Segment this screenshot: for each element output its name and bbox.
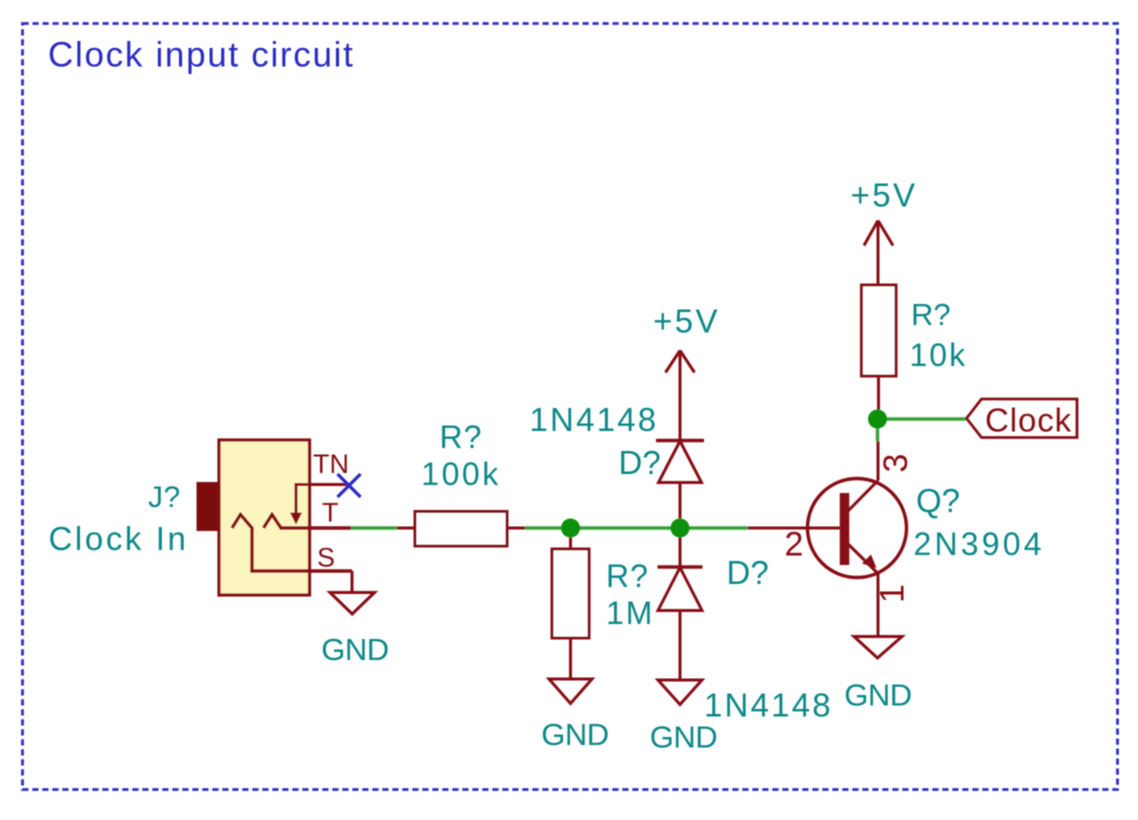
global label Clock outline <box>967 399 1078 438</box>
transistor Q1 collector diagonal <box>846 481 878 514</box>
power symbol +5V (middle) arrow <box>666 351 695 441</box>
svg-text:Q?: Q? <box>916 482 960 519</box>
transistor Q1 base bar <box>840 493 850 565</box>
resistor R3 10k bottom lead <box>877 376 880 419</box>
transistor Q1 emitter diagonal <box>846 542 878 574</box>
svg-text:1N4148: 1N4148 <box>704 687 833 724</box>
diode D2 cathode lead from junction <box>679 528 682 567</box>
transistor Q1 emitter arrow <box>862 555 877 569</box>
J1 switch arrow head <box>290 513 302 525</box>
svg-text:Clock input circuit: Clock input circuit <box>48 36 355 75</box>
svg-text:D?: D? <box>727 554 769 591</box>
junction dot at diode node <box>671 519 690 538</box>
svg-text:D?: D? <box>619 444 661 481</box>
resistor R2 1M body <box>552 549 589 638</box>
svg-text:T: T <box>322 498 339 528</box>
connector J1 sleeve bushing <box>197 482 220 531</box>
svg-text:+5V: +5V <box>653 303 720 340</box>
wire R 100k to transistor base <box>525 526 748 529</box>
svg-text:1: 1 <box>874 584 912 603</box>
svg-text:3: 3 <box>877 454 915 473</box>
ground symbol below R2 <box>549 679 592 704</box>
transistor Q1 emitter lead <box>877 574 880 638</box>
svg-text:J?: J? <box>148 481 181 514</box>
diode D2 anode lead <box>679 611 682 681</box>
junction dot at collector node <box>868 410 887 429</box>
svg-text:R?: R? <box>440 419 483 455</box>
ground symbol below jack <box>330 571 375 614</box>
svg-text:TN: TN <box>313 449 349 479</box>
svg-text:GND: GND <box>844 678 911 713</box>
svg-text:GND: GND <box>321 632 388 667</box>
J1 sleeve contact + pin S wire to corner <box>232 515 352 572</box>
svg-text:2N3904: 2N3904 <box>914 526 1045 562</box>
transistor Q1 circle <box>808 479 907 578</box>
power symbol +5V (top) arrow <box>864 221 893 286</box>
diode D1 triangle <box>659 441 702 483</box>
svg-text:100k: 100k <box>421 456 500 492</box>
svg-text:1N4148: 1N4148 <box>530 401 659 438</box>
J1 switch pin TN line <box>296 485 347 517</box>
transistor Q1 base pin <box>748 527 840 530</box>
resistor R2 1M top lead <box>569 528 572 549</box>
svg-text:GND: GND <box>650 720 717 755</box>
junction dot at R2 tap <box>561 519 580 538</box>
svg-text:R?: R? <box>606 558 649 594</box>
resistor R1 100k leads <box>397 527 525 530</box>
svg-text:Clock: Clock <box>985 402 1072 439</box>
svg-text:1M: 1M <box>606 595 654 631</box>
resistor R3 10k body <box>862 285 897 376</box>
diode D2 triangle <box>658 568 702 611</box>
resistor R1 100k body <box>415 512 507 547</box>
diode D1 anode lead <box>679 483 682 522</box>
wire jack T to R 100k <box>351 526 397 529</box>
diode D1 cathode bar <box>656 439 704 443</box>
wire collector node down to Q1 collector pin <box>876 419 879 442</box>
svg-text:S: S <box>317 543 335 573</box>
svg-text:+5V: +5V <box>851 177 918 214</box>
diode D2 cathode bar <box>658 565 703 569</box>
connector J1 audio jack body <box>219 440 310 595</box>
wire collector node to Clock label <box>878 417 967 420</box>
ground symbol below D2 <box>658 680 702 705</box>
svg-text:2: 2 <box>785 526 804 564</box>
no-connect X on pin TN <box>338 474 361 497</box>
svg-text:Clock In: Clock In <box>49 520 189 557</box>
transistor Q1 collector lead <box>877 442 880 481</box>
ground symbol below Q1 <box>854 637 902 659</box>
J1 tip contact + pin T stub <box>264 515 352 529</box>
svg-text:10k: 10k <box>910 337 968 373</box>
svg-text:GND: GND <box>541 717 608 752</box>
svg-text:R?: R? <box>911 297 951 332</box>
resistor R2 1M bottom lead <box>569 638 572 679</box>
